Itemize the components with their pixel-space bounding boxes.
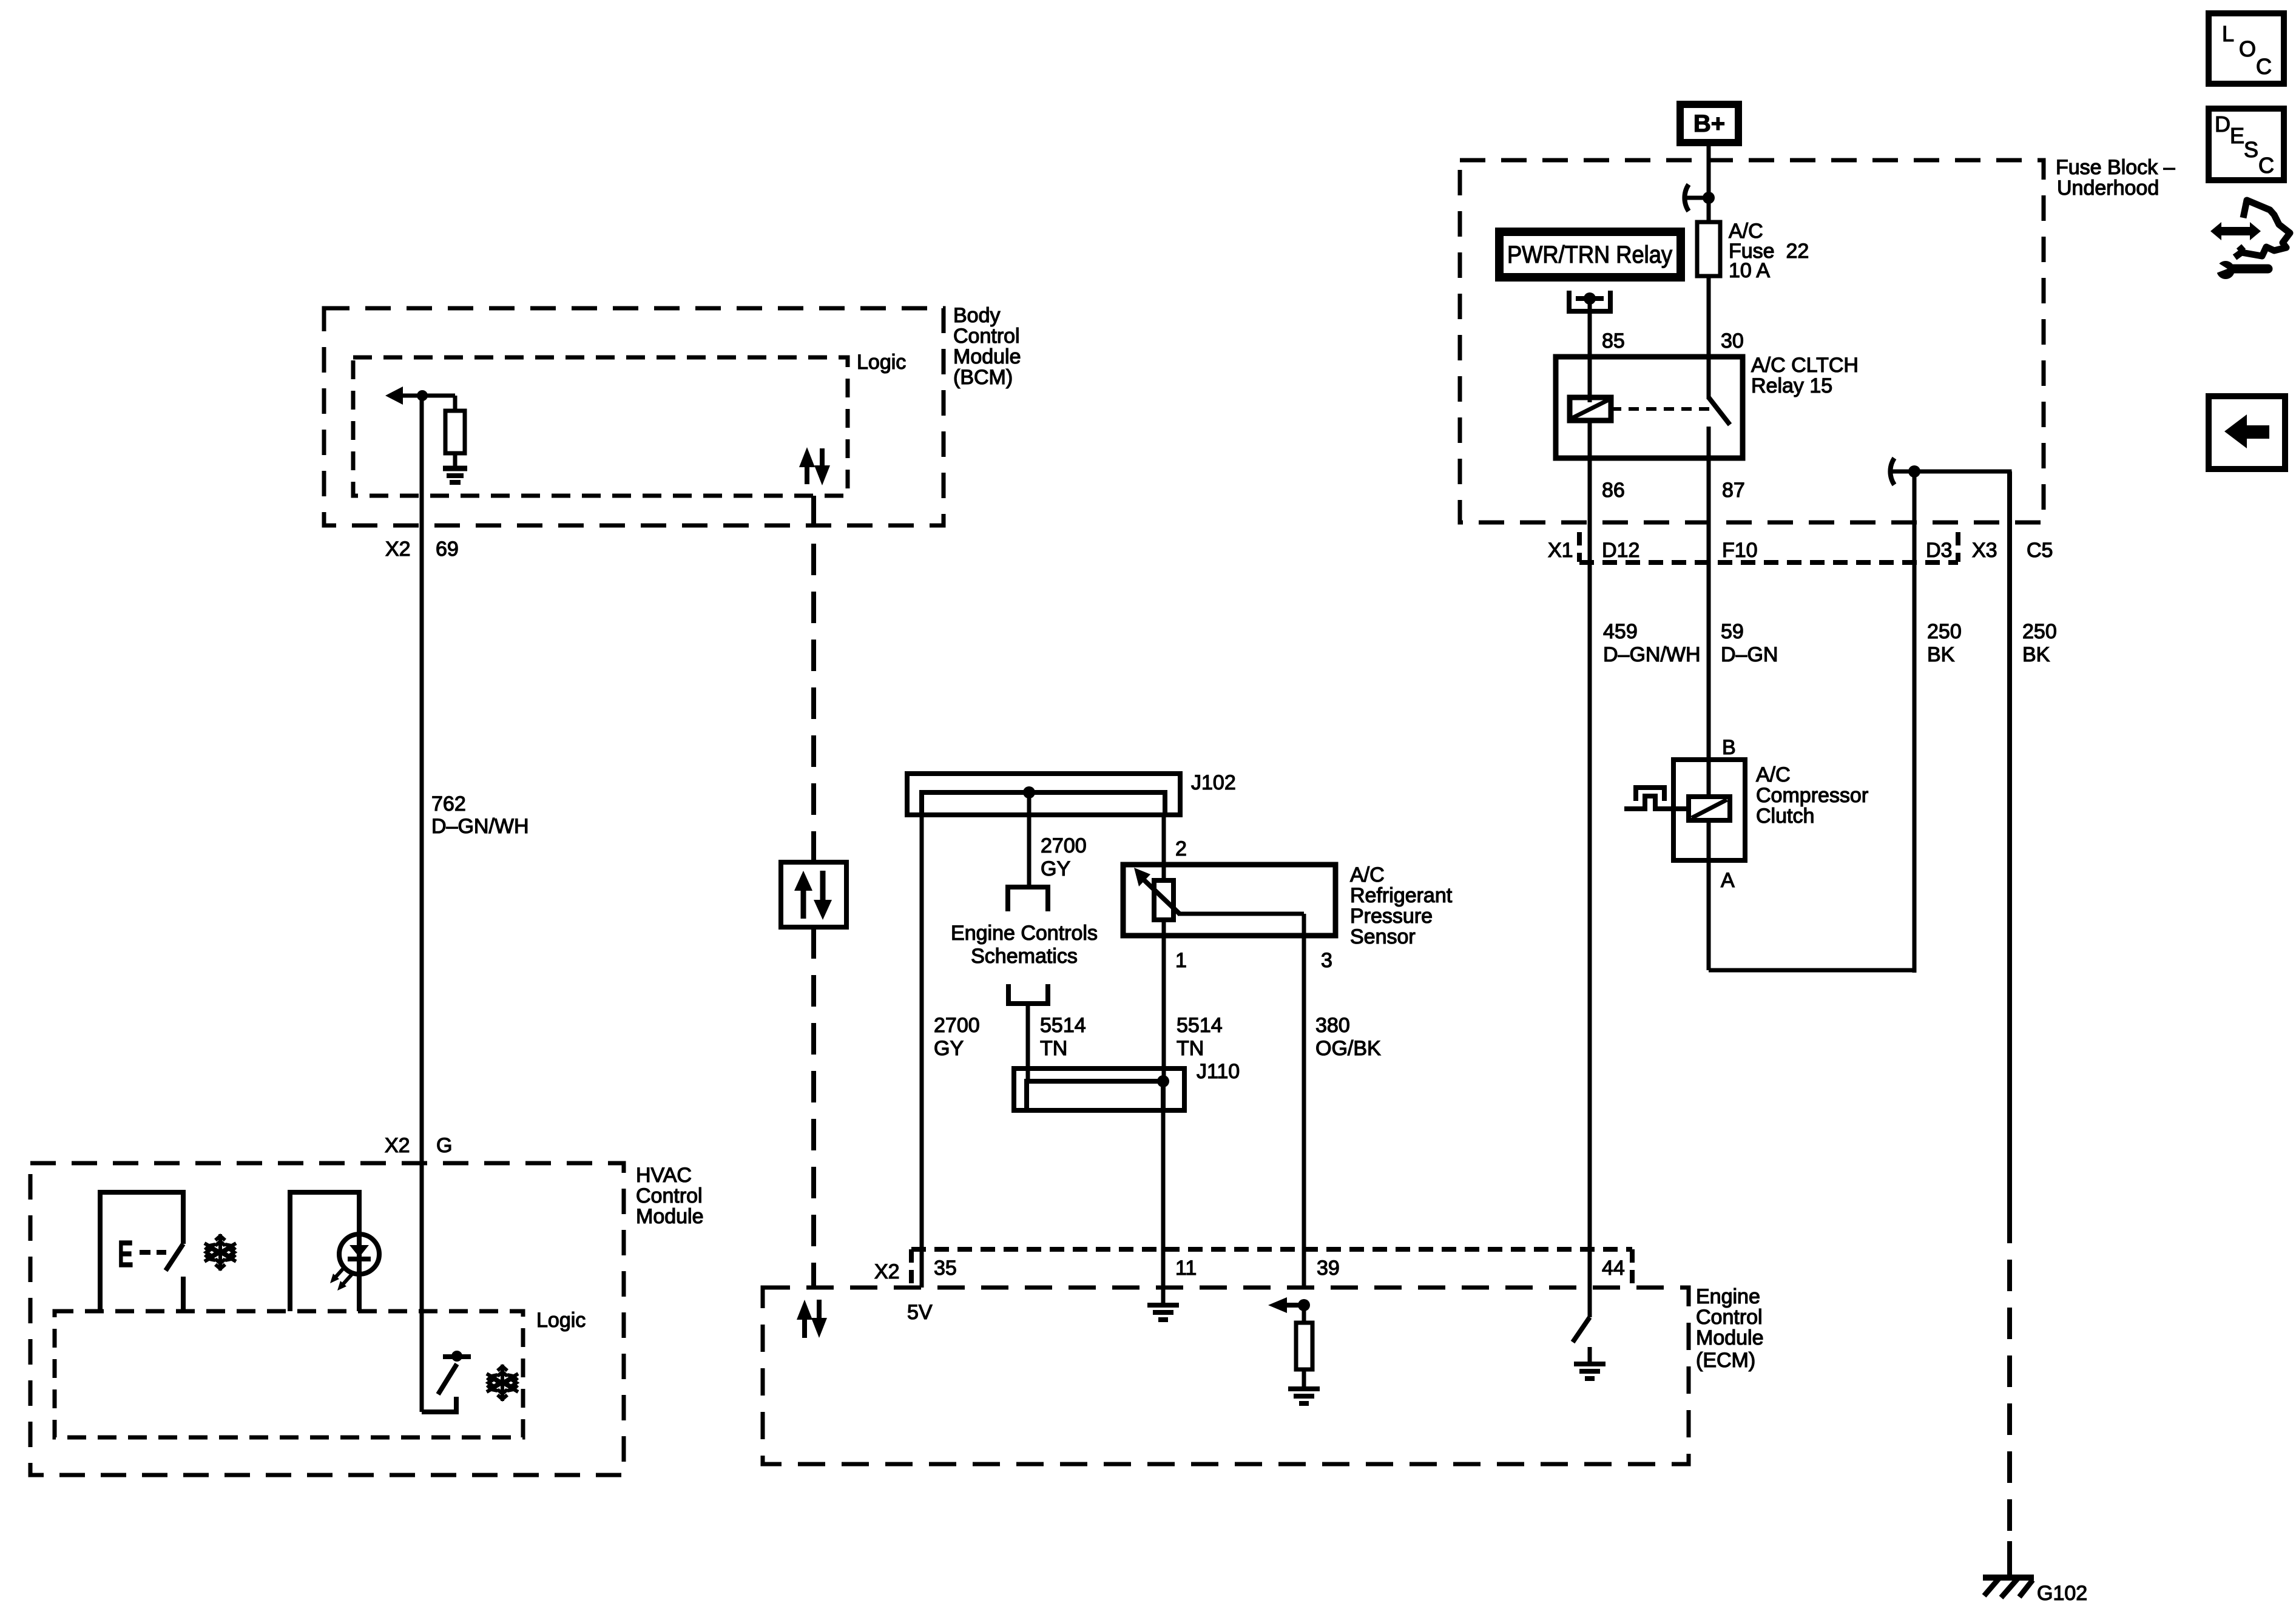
svg-text:Engine: Engine xyxy=(1696,1285,1760,1308)
svg-text:10 A: 10 A xyxy=(1729,259,1770,282)
svg-text:X1: X1 xyxy=(1548,539,1573,562)
svg-text:A: A xyxy=(1721,869,1735,892)
svg-text:380: 380 xyxy=(1315,1014,1350,1037)
svg-text:Sensor: Sensor xyxy=(1350,925,1416,948)
svg-text:OG/BK: OG/BK xyxy=(1315,1037,1381,1060)
svg-text:X2: X2 xyxy=(385,538,411,561)
svg-text:X2: X2 xyxy=(874,1260,900,1283)
svg-text:Schematics: Schematics xyxy=(971,945,1078,968)
svg-text:Control: Control xyxy=(953,325,1020,348)
svg-text:11: 11 xyxy=(1175,1257,1197,1280)
svg-text:1: 1 xyxy=(1175,949,1187,972)
svg-text:GY: GY xyxy=(1041,857,1070,880)
svg-text:HVAC: HVAC xyxy=(636,1164,692,1187)
svg-text:GY: GY xyxy=(934,1037,964,1060)
svg-text:87: 87 xyxy=(1722,479,1745,502)
svg-text:Module: Module xyxy=(636,1205,704,1228)
svg-text:A/C: A/C xyxy=(1756,763,1791,786)
svg-text:2700: 2700 xyxy=(934,1014,980,1037)
svg-text:30: 30 xyxy=(1721,329,1744,353)
svg-text:B+: B+ xyxy=(1693,110,1725,137)
svg-text:G102: G102 xyxy=(2037,1582,2087,1605)
svg-text:762: 762 xyxy=(431,792,466,815)
svg-text:B: B xyxy=(1722,736,1736,759)
svg-text:Clutch: Clutch xyxy=(1756,805,1814,828)
svg-text:39: 39 xyxy=(1317,1257,1340,1280)
svg-text:BK: BK xyxy=(1927,643,1955,666)
svg-text:TN: TN xyxy=(1177,1037,1204,1060)
svg-text:250: 250 xyxy=(2022,620,2057,643)
svg-text:C: C xyxy=(2258,153,2274,178)
svg-text:J102: J102 xyxy=(1191,771,1236,794)
svg-text:S: S xyxy=(2244,137,2258,162)
svg-text:A/C CLTCH: A/C CLTCH xyxy=(1751,354,1859,377)
svg-text:Module: Module xyxy=(953,345,1021,368)
svg-text:J110: J110 xyxy=(1197,1060,1240,1083)
svg-text:459: 459 xyxy=(1603,620,1638,643)
svg-text:O: O xyxy=(2239,36,2256,61)
svg-text:2: 2 xyxy=(1175,837,1187,860)
svg-text:2700: 2700 xyxy=(1041,834,1087,857)
svg-text:3: 3 xyxy=(1321,949,1332,972)
svg-text:35: 35 xyxy=(934,1257,957,1280)
svg-text:PWR/TRN Relay: PWR/TRN Relay xyxy=(1507,241,1672,268)
svg-text:G: G xyxy=(436,1134,452,1157)
svg-text:Control: Control xyxy=(636,1184,703,1207)
svg-text:Fuse Block –: Fuse Block – xyxy=(2056,156,2175,179)
svg-text:E: E xyxy=(118,1233,133,1275)
svg-text:D: D xyxy=(2215,112,2230,137)
svg-text:BK: BK xyxy=(2022,643,2050,666)
svg-text:5514: 5514 xyxy=(1040,1014,1086,1037)
svg-text:Pressure: Pressure xyxy=(1350,905,1433,928)
svg-text:D–GN: D–GN xyxy=(1721,643,1778,666)
svg-text:86: 86 xyxy=(1602,479,1625,502)
svg-text:85: 85 xyxy=(1602,329,1625,353)
svg-text:Body: Body xyxy=(953,304,1001,327)
svg-text:69: 69 xyxy=(436,538,459,561)
svg-text:Module: Module xyxy=(1696,1326,1764,1349)
svg-text:D–GN/WH: D–GN/WH xyxy=(431,815,529,838)
svg-text:D12: D12 xyxy=(1602,539,1639,562)
svg-text:E: E xyxy=(2230,123,2244,148)
svg-text:Logic: Logic xyxy=(857,351,906,374)
svg-text:Engine Controls: Engine Controls xyxy=(951,922,1098,945)
svg-text:C: C xyxy=(2256,54,2272,79)
svg-text:5514: 5514 xyxy=(1177,1014,1223,1037)
svg-text:5V: 5V xyxy=(907,1301,933,1324)
svg-text:Refrigerant: Refrigerant xyxy=(1350,884,1453,907)
svg-text:250: 250 xyxy=(1927,620,1962,643)
svg-text:44: 44 xyxy=(1602,1257,1625,1280)
svg-text:(ECM): (ECM) xyxy=(1696,1349,1755,1372)
svg-text:Control: Control xyxy=(1696,1306,1763,1329)
svg-text:Logic: Logic xyxy=(536,1309,586,1332)
svg-text:D3: D3 xyxy=(1926,539,1952,562)
svg-text:A/C: A/C xyxy=(1350,863,1385,886)
svg-text:Underhood: Underhood xyxy=(2057,177,2159,200)
svg-text:F10: F10 xyxy=(1722,539,1758,562)
svg-text:Compressor: Compressor xyxy=(1756,784,1868,807)
svg-text:59: 59 xyxy=(1721,620,1744,643)
svg-text:Relay 15: Relay 15 xyxy=(1751,374,1832,397)
svg-text:X3: X3 xyxy=(1972,539,1997,562)
svg-text:D–GN/WH: D–GN/WH xyxy=(1603,643,1701,666)
svg-text:X2: X2 xyxy=(385,1134,410,1157)
svg-text:TN: TN xyxy=(1040,1037,1067,1060)
svg-text:L: L xyxy=(2222,21,2234,46)
svg-text:(BCM): (BCM) xyxy=(953,366,1013,389)
svg-text:C5: C5 xyxy=(2027,539,2053,562)
